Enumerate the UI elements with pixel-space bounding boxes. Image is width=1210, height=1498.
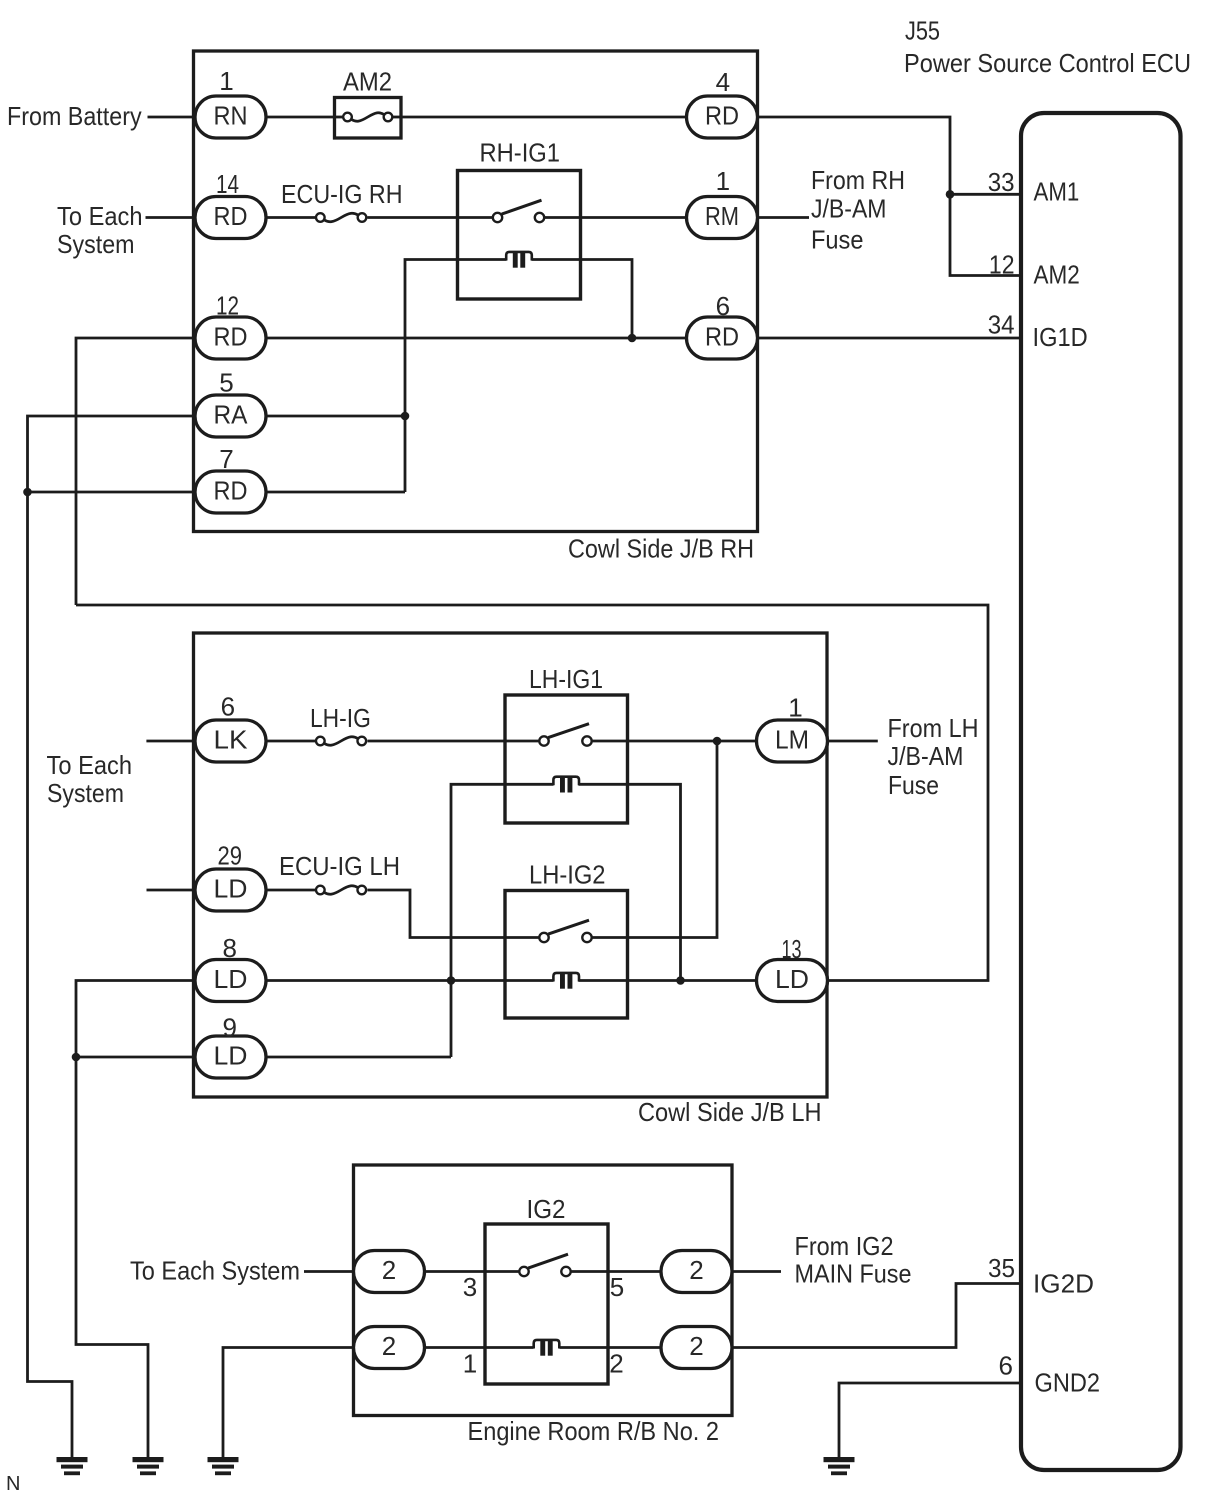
wire LH-IG1 coil left lead <box>451 784 554 1057</box>
wire LM stub to From LH J/B-AM Fuse <box>828 740 878 743</box>
svg-text:RN: RN <box>214 100 248 130</box>
pin 12 AM2 <box>989 250 1080 290</box>
junction node LD8 line to LD9 riser <box>447 976 456 985</box>
svg-text:IG2: IG2 <box>527 1194 566 1224</box>
svg-text:34: 34 <box>988 310 1015 340</box>
wire RH-IG1 coil left lead <box>405 260 507 493</box>
fuse LH-IG <box>310 703 371 745</box>
label From IG2 MAIN Fuse <box>795 1231 912 1289</box>
svg-text:7: 7 <box>219 444 233 474</box>
svg-text:LK: LK <box>214 724 249 754</box>
relay block Engine Room R/B No. 2 <box>354 1165 733 1416</box>
svg-text:1: 1 <box>716 166 730 196</box>
svg-text:LH-IG2: LH-IG2 <box>529 860 606 890</box>
wire fuse ECU-IG RH to relay switch <box>368 216 493 219</box>
wire LD13 to RD12 link <box>76 605 988 981</box>
relay LH-IG1 <box>505 664 628 823</box>
wire IG2 switch to pin 2 (upper right) <box>571 1270 661 1273</box>
junction node AM1 feed <box>946 190 955 199</box>
junction node RD7 to ground line <box>23 488 32 497</box>
svg-text:To Each System: To Each System <box>130 1256 300 1286</box>
svg-text:6: 6 <box>221 692 235 722</box>
junction box Cowl Side J/B LH <box>194 633 828 1097</box>
wire RA left lead <box>28 416 196 1460</box>
ground N1 <box>57 1457 88 1475</box>
svg-text:System: System <box>47 778 124 808</box>
connector pin 1 LM <box>757 693 828 763</box>
svg-text:AM2: AM2 <box>1034 260 1080 290</box>
wire fuse ECU-IG LH to LH-IG2 switch <box>368 890 540 938</box>
svg-text:2: 2 <box>689 1331 703 1361</box>
svg-text:IG2D: IG2D <box>1033 1269 1094 1299</box>
connector pin 5 RA <box>195 368 266 438</box>
wire RD6 to ECU IG1D <box>758 337 1022 340</box>
wire LD9 to LH-IG1 coil riser <box>266 1056 451 1059</box>
label Cowl Side J/B LH <box>638 1097 822 1127</box>
svg-text:29: 29 <box>217 841 242 871</box>
wire pin 2 to ECU IG2D <box>732 1284 1021 1348</box>
svg-text:1: 1 <box>788 693 802 723</box>
relay RH-IG1 coil <box>506 252 532 268</box>
relay LH-IG2 switch contact <box>539 920 591 942</box>
wire RD14 to fuse ECU-IG RH <box>266 216 316 219</box>
label To Each System (RH) <box>57 201 143 259</box>
svg-text:From RH: From RH <box>811 165 905 195</box>
fuse ECU-IG RH <box>281 179 403 222</box>
wire RM stub to From RH J/B-AM Fuse <box>758 216 810 219</box>
svg-text:RD: RD <box>705 321 739 351</box>
svg-text:33: 33 <box>988 167 1015 197</box>
svg-text:RA: RA <box>214 399 249 429</box>
wire LK to fuse LH-IG <box>266 740 316 743</box>
wire IG2 coil to pin 2 (lower right) <box>560 1346 662 1349</box>
svg-text:LM: LM <box>775 724 809 754</box>
label From Battery <box>7 101 142 131</box>
connector pin 8 LD <box>195 933 266 1002</box>
IC Power Source Control ECU J55 <box>1021 113 1181 1470</box>
wire LH-IG1 switch to LM <box>592 740 757 743</box>
svg-text:6: 6 <box>999 1351 1013 1381</box>
relay LH-IG2 <box>505 860 628 1019</box>
pin 35 IG2D <box>988 1253 1094 1299</box>
svg-text:N: N <box>6 1473 20 1495</box>
svg-text:RD: RD <box>214 321 248 351</box>
connector pin 4 RD <box>687 67 758 138</box>
svg-text:3: 3 <box>463 1272 477 1302</box>
wire From Battery to RN <box>148 116 196 119</box>
svg-text:MAIN Fuse: MAIN Fuse <box>795 1259 912 1289</box>
wire pin 2 to IG2 switch <box>425 1270 519 1273</box>
connector pin 6 LK <box>195 692 266 763</box>
junction node LD9 to ground line <box>72 1053 81 1062</box>
svg-text:1: 1 <box>463 1349 477 1379</box>
wire RD12 left lead <box>76 338 195 605</box>
wire RD7 left lead <box>28 491 196 494</box>
svg-text:8: 8 <box>222 933 236 963</box>
svg-text:J/B-AM: J/B-AM <box>811 194 887 224</box>
wire To Each System to RD14 <box>146 216 196 219</box>
wire RD12 to RD6 <box>266 337 687 340</box>
relay IG2 switch contact <box>519 1254 570 1276</box>
relay RH-IG1 <box>458 138 581 300</box>
ground N2 <box>133 1457 164 1475</box>
svg-text:RD: RD <box>214 201 248 231</box>
junction box Cowl Side J/B RH <box>194 51 758 532</box>
connector pin 6 RD <box>687 291 758 359</box>
relay LH-IG1 switch contact <box>539 724 591 746</box>
junction node coil right to LD line <box>676 976 685 985</box>
connector pin 9 LD <box>195 1013 266 1079</box>
wire pin 2 stub to From IG2 MAIN Fuse <box>732 1270 781 1273</box>
label To Each System (bottom) <box>130 1256 300 1286</box>
connector pin 2 (upper right) <box>661 1251 732 1293</box>
svg-text:System: System <box>57 229 135 259</box>
wire RD7 to coil lead <box>266 491 405 494</box>
connector pin 14 RD <box>195 169 266 239</box>
svg-text:AM2: AM2 <box>343 67 392 97</box>
connector pin 2 (upper left) <box>354 1251 425 1293</box>
wire fuse LH-IG to LH-IG1 switch <box>368 740 540 743</box>
svg-text:LH-IG: LH-IG <box>310 703 371 733</box>
wire LD9 left lead <box>76 1056 195 1059</box>
connector pin 1 RM <box>687 166 758 239</box>
svg-text:6: 6 <box>716 291 730 321</box>
svg-text:ECU-IG RH: ECU-IG RH <box>281 179 403 209</box>
svg-text:35: 35 <box>988 1253 1015 1283</box>
wire LD8 to LH-IG2 coil <box>266 979 554 982</box>
wire To Each System to LK <box>146 740 195 743</box>
svg-text:LD: LD <box>775 964 809 994</box>
svg-text:Fuse: Fuse <box>888 770 939 800</box>
junction node RA coil lead <box>401 412 410 421</box>
svg-text:From Battery: From Battery <box>7 101 142 131</box>
connector pin 29 LD <box>195 841 266 912</box>
wire LD29 left stub <box>147 889 196 892</box>
relay LH-IG1 coil <box>553 777 579 793</box>
svg-text:LD: LD <box>214 873 248 903</box>
relay LH-IG2 coil <box>553 973 579 989</box>
svg-text:GND2: GND2 <box>1035 1368 1101 1398</box>
svg-text:LD: LD <box>214 1040 248 1070</box>
connector pin 7 RD <box>195 444 266 513</box>
wire RN to fuse AM2 <box>266 116 335 119</box>
relay IG2 <box>485 1194 608 1384</box>
svg-text:2: 2 <box>689 1255 703 1285</box>
wire ECU GND2 to ground <box>839 1383 1021 1460</box>
svg-text:12: 12 <box>216 291 239 321</box>
svg-text:12: 12 <box>989 250 1015 280</box>
svg-text:2: 2 <box>609 1349 623 1379</box>
wire RH-IG1 coil right lead <box>532 260 633 339</box>
label Cowl Side J/B RH <box>568 534 754 564</box>
pin 33 AM1 <box>988 167 1080 207</box>
svg-text:To Each: To Each <box>47 750 133 780</box>
svg-text:1: 1 <box>219 66 233 96</box>
svg-text:From LH: From LH <box>888 713 979 743</box>
svg-text:LD: LD <box>214 964 248 994</box>
label To Each System (LH) <box>47 750 133 808</box>
wire relay switch to RM <box>545 216 687 219</box>
svg-text:AM1: AM1 <box>1034 177 1080 207</box>
connector pin 12 RD <box>195 291 266 360</box>
label Power Source Control ECU <box>904 48 1191 78</box>
label From LH J/B-AM Fuse <box>888 713 979 800</box>
label N <box>6 1473 20 1495</box>
svg-text:5: 5 <box>610 1272 624 1302</box>
svg-text:5: 5 <box>219 368 233 398</box>
relay IG2 coil <box>534 1340 560 1356</box>
svg-text:To Each: To Each <box>57 201 143 231</box>
wire pin 2 to IG2 coil <box>425 1346 534 1349</box>
svg-text:LH-IG1: LH-IG1 <box>529 664 603 694</box>
svg-text:Engine Room R/B No. 2: Engine Room R/B No. 2 <box>468 1416 720 1446</box>
connector pin 2 (lower right) <box>661 1327 732 1369</box>
pin 1 label <box>463 1349 477 1379</box>
connector pin 13 LD <box>757 934 828 1002</box>
svg-text:Fuse: Fuse <box>811 225 864 255</box>
svg-text:Cowl Side J/B LH: Cowl Side J/B LH <box>638 1097 822 1127</box>
svg-text:Power Source Control ECU: Power Source Control ECU <box>904 48 1191 78</box>
wire RD4 to ECU AM1/AM2 <box>758 117 1022 276</box>
svg-text:From IG2: From IG2 <box>795 1231 894 1261</box>
wire fuse AM2 to RD4 <box>401 116 687 119</box>
svg-text:RM: RM <box>705 201 739 231</box>
wire into pin AM1 <box>950 193 1021 196</box>
fuse AM2 <box>335 67 402 139</box>
wire RA to coil lead <box>266 415 405 418</box>
svg-text:RD: RD <box>705 100 739 130</box>
connector pin 1 RN <box>195 66 266 138</box>
pin 2 label <box>609 1349 623 1379</box>
svg-text:Cowl Side J/B RH: Cowl Side J/B RH <box>568 534 754 564</box>
pin 5 label <box>610 1272 624 1302</box>
pin 34 IG1D <box>988 310 1088 353</box>
label From RH J/B-AM Fuse <box>811 165 905 255</box>
ground N3 <box>208 1457 239 1475</box>
wire ground to pin 2 (lower left) <box>223 1348 354 1460</box>
wire LD8 left lead <box>76 981 195 1460</box>
pin 3 label <box>463 1272 477 1302</box>
junction node coil to RD6 line <box>628 334 637 343</box>
svg-text:14: 14 <box>216 169 239 199</box>
svg-text:4: 4 <box>716 67 730 97</box>
svg-text:13: 13 <box>782 934 802 964</box>
svg-text:2: 2 <box>382 1255 396 1285</box>
relay RH-IG1 switch contact <box>493 200 544 222</box>
svg-text:9: 9 <box>222 1013 236 1043</box>
svg-text:J55: J55 <box>905 16 940 46</box>
svg-text:ECU-IG LH: ECU-IG LH <box>279 851 400 881</box>
svg-text:IG1D: IG1D <box>1033 322 1088 352</box>
wire To Each System to pin 2 <box>304 1270 354 1273</box>
wire LH-IG1 coil right lead <box>579 784 681 980</box>
wire LH-IG2 coil to LD13 <box>579 979 757 982</box>
label Engine Room R/B No. 2 <box>468 1416 720 1446</box>
fuse ECU-IG LH <box>279 851 400 894</box>
svg-text:J/B-AM: J/B-AM <box>888 741 964 771</box>
junction node LM feed <box>713 737 722 746</box>
svg-text:2: 2 <box>382 1331 396 1361</box>
ground N4 <box>824 1457 855 1475</box>
label J55 <box>905 16 940 46</box>
pin 6 GND2 <box>999 1351 1100 1398</box>
connector pin 2 (lower left) <box>354 1327 425 1369</box>
wire LD29 to fuse ECU-IG LH <box>266 889 316 892</box>
svg-text:RH-IG1: RH-IG1 <box>480 138 561 168</box>
svg-text:RD: RD <box>214 475 248 505</box>
wire LH-IG2 switch to LM feed <box>592 741 717 938</box>
